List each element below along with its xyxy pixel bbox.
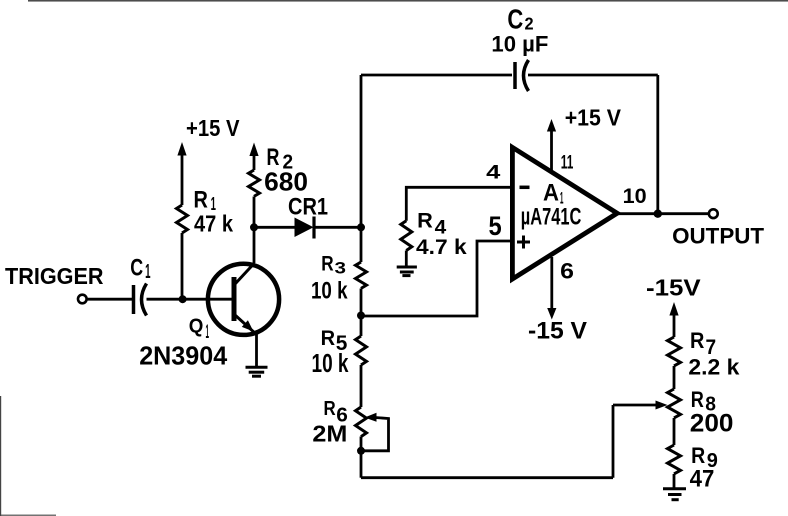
svg-text:R: R	[321, 326, 336, 350]
svg-text:CR1: CR1	[288, 194, 328, 221]
svg-text:R: R	[321, 251, 333, 275]
svg-text:4: 4	[486, 161, 500, 183]
svg-text:OUTPUT: OUTPUT	[672, 224, 764, 249]
svg-text:47: 47	[690, 467, 715, 493]
svg-text:-15V: -15V	[646, 275, 701, 301]
svg-text:200: 200	[690, 410, 734, 438]
svg-text:A: A	[543, 180, 559, 207]
svg-text:R: R	[691, 387, 704, 412]
svg-text:10 µF: 10 µF	[491, 32, 548, 57]
svg-text:R: R	[417, 208, 433, 232]
svg-text:47 k: 47 k	[194, 211, 234, 237]
svg-text:Q: Q	[189, 315, 204, 338]
svg-text:1: 1	[145, 261, 150, 283]
svg-text:R: R	[324, 397, 336, 420]
svg-text:C: C	[130, 256, 143, 282]
svg-text:+15 V: +15 V	[186, 115, 240, 141]
svg-text:C: C	[507, 4, 523, 35]
svg-text:5: 5	[489, 211, 502, 241]
svg-text:R: R	[194, 186, 208, 213]
svg-text:680: 680	[264, 169, 308, 197]
svg-text:-15 V: -15 V	[528, 318, 587, 345]
svg-text:4.7 k: 4.7 k	[416, 235, 467, 259]
svg-text:+15 V: +15 V	[565, 105, 622, 131]
svg-text:R: R	[267, 144, 280, 171]
svg-text:R: R	[691, 443, 705, 468]
svg-text:R: R	[690, 328, 704, 353]
svg-text:11: 11	[561, 152, 574, 174]
svg-text:3: 3	[335, 259, 347, 278]
svg-text:µA741C: µA741C	[521, 204, 582, 231]
svg-text:2N3904: 2N3904	[139, 343, 228, 371]
svg-text:10: 10	[623, 185, 647, 208]
svg-text:6: 6	[560, 259, 574, 284]
svg-text:1: 1	[206, 322, 210, 343]
svg-text:10 k: 10 k	[311, 278, 348, 305]
svg-text:2.2 k: 2.2 k	[688, 355, 739, 380]
svg-text:2M: 2M	[312, 421, 347, 447]
svg-text:10 k: 10 k	[312, 350, 350, 378]
svg-text:TRIGGER: TRIGGER	[5, 263, 104, 289]
